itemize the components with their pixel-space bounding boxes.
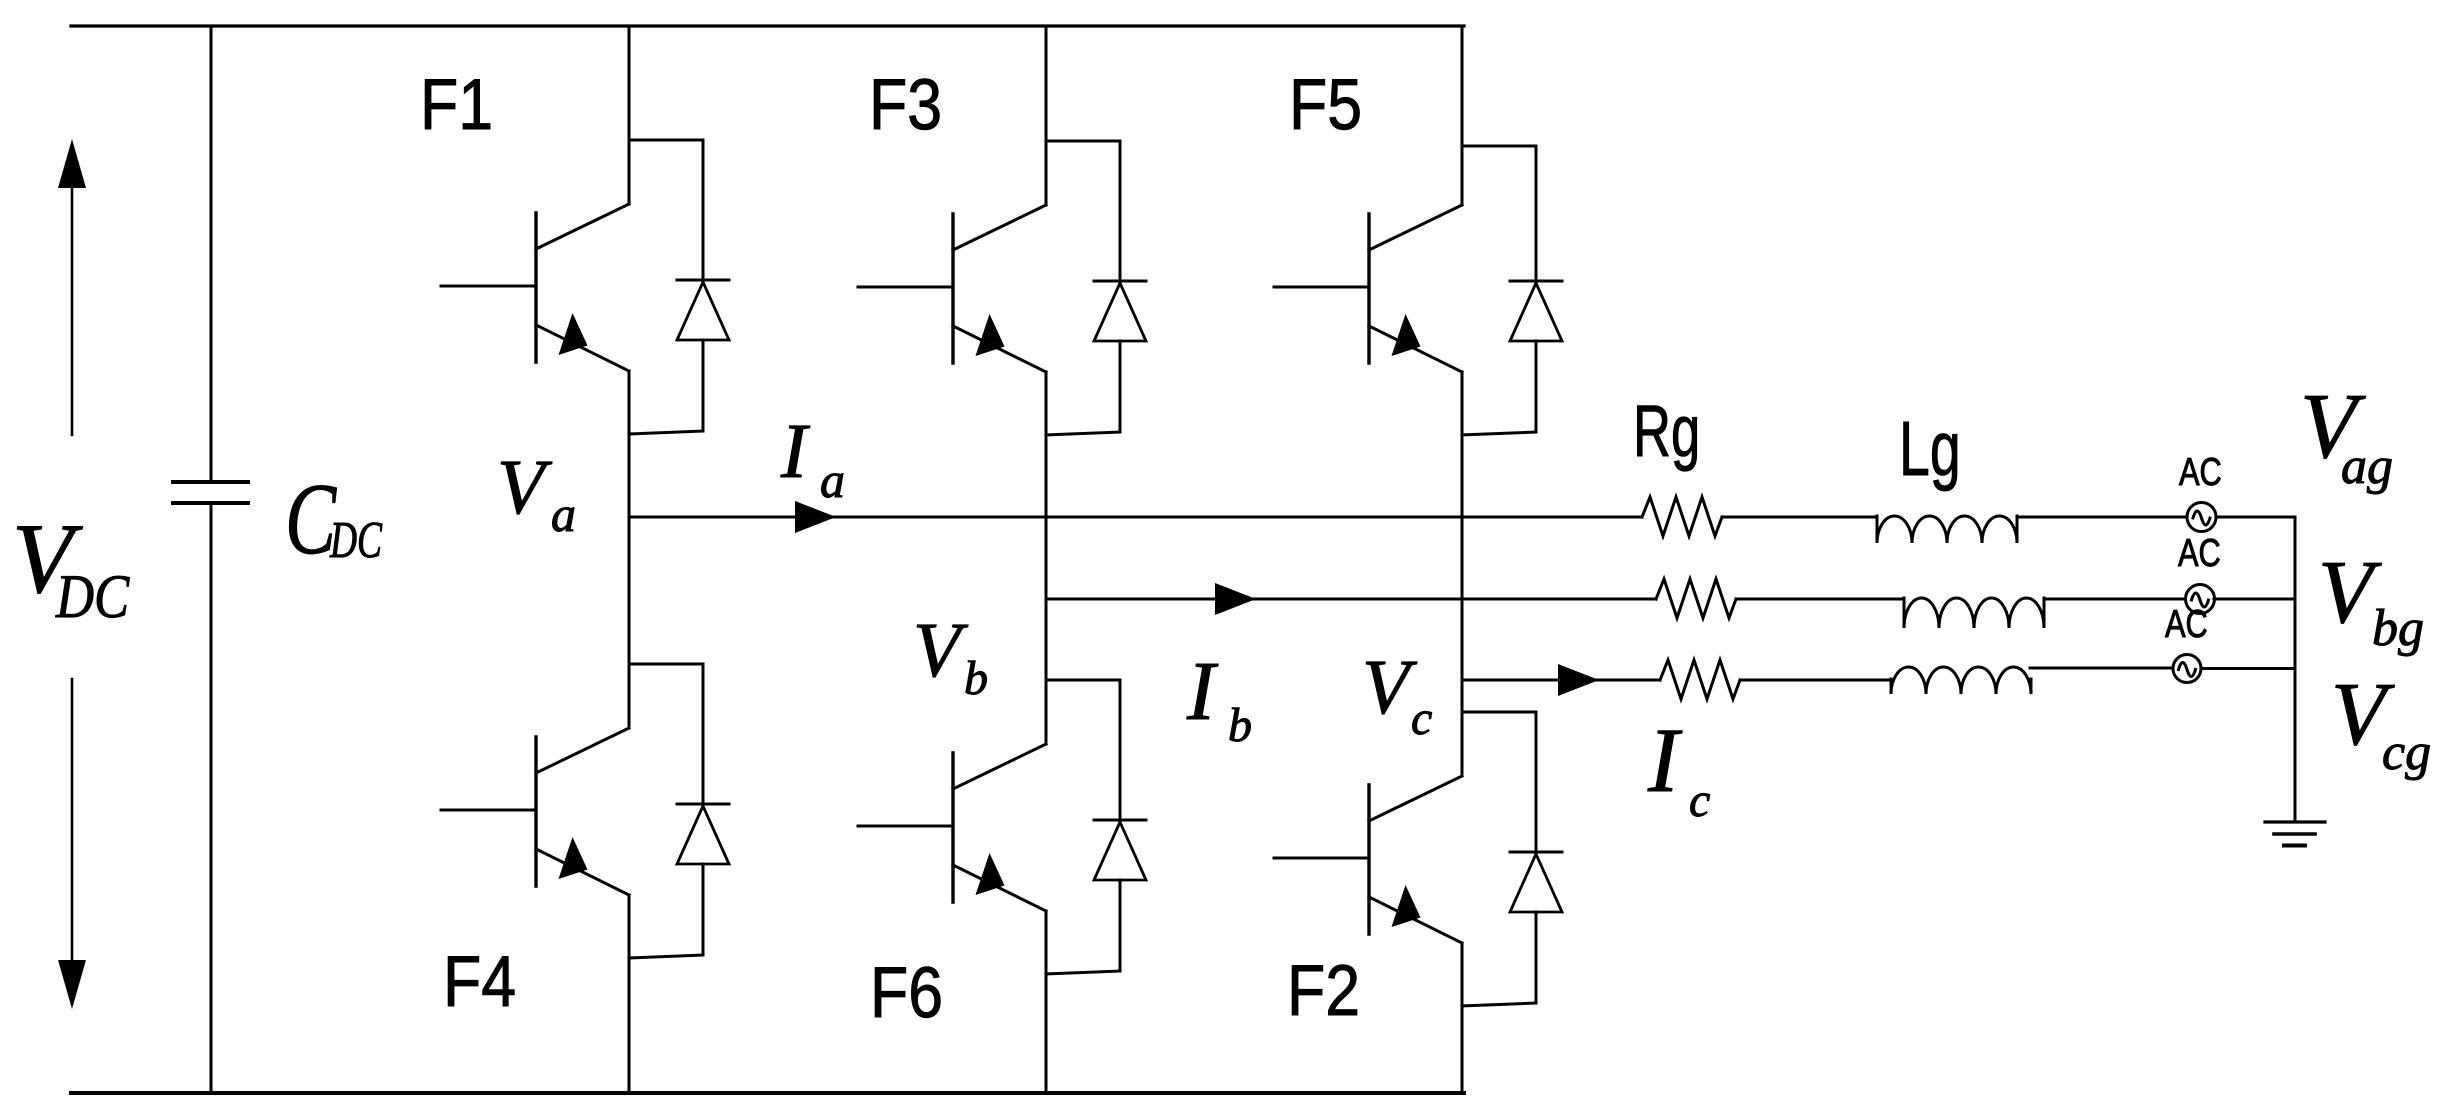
svg-text:F6: F6 xyxy=(870,953,943,1033)
inductor Lg (phase a) xyxy=(1877,516,2017,543)
wire phase a: inverter to resistor xyxy=(629,516,1642,519)
wire phase b: inductor to AC source xyxy=(2044,598,2185,601)
svg-text:I: I xyxy=(1186,645,1219,738)
transistor F4 (IGBT) xyxy=(441,728,629,895)
label F3 xyxy=(869,65,942,145)
label I_a xyxy=(780,407,845,508)
wire phase b: inverter to resistor xyxy=(1046,598,1656,601)
label V_c xyxy=(1362,643,1432,745)
label F1 xyxy=(420,65,493,145)
freewheel diode of F4 xyxy=(629,664,729,958)
V_DC down arrow xyxy=(58,679,86,1009)
svg-text:DC: DC xyxy=(329,512,383,569)
transistor F2 (IGBT) xyxy=(1274,776,1462,943)
wire: leg B upper (F3 collector) xyxy=(1045,26,1048,205)
freewheel diode of F6 xyxy=(1046,680,1146,974)
label AC (phase b) xyxy=(2178,532,2221,575)
wire phase c: inverter to resistor xyxy=(1462,679,1660,682)
capacitor C_DC xyxy=(173,482,248,503)
current arrow Ic xyxy=(1558,664,1599,696)
wire: DC-link rail (bottom) xyxy=(210,505,213,1093)
svg-text:c: c xyxy=(1689,774,1710,827)
svg-text:F1: F1 xyxy=(420,65,493,145)
label AC (phase a) xyxy=(2179,451,2222,494)
svg-text:b: b xyxy=(964,652,988,705)
wire phase b: resistor to inductor xyxy=(1736,598,1904,601)
label F5 xyxy=(1289,65,1362,145)
V_DC up arrow xyxy=(58,139,86,435)
label Rg xyxy=(1633,391,1700,472)
label V_a xyxy=(497,443,576,542)
label I_b xyxy=(1186,645,1252,752)
wire: bottom DC bus xyxy=(71,1091,1464,1095)
svg-text:bg: bg xyxy=(2372,600,2424,657)
inductor Lg (phase c) xyxy=(1891,667,2031,694)
ground xyxy=(2265,822,2325,846)
current arrow Ib xyxy=(1215,583,1256,615)
wire: leg C upper (F5 collector) xyxy=(1461,26,1464,205)
wire phase a: resistor to inductor xyxy=(1722,516,1877,519)
wire phase b: AC source to grid bus xyxy=(2214,598,2295,601)
svg-text:DC: DC xyxy=(55,563,130,631)
label I_c xyxy=(1647,709,1710,827)
transistor F3 (IGBT) xyxy=(858,205,1046,372)
wire phase c: inductor to AC source xyxy=(2030,667,2173,670)
wire: leg C lower (F2 emitter) xyxy=(1461,943,1464,1093)
svg-text:ag: ag xyxy=(2341,438,2393,495)
wire: leg A middle (phase-a node) xyxy=(628,371,631,728)
resistor Rg (phase c) xyxy=(1660,660,1740,699)
svg-text:Lg: Lg xyxy=(1899,406,1961,492)
wire phase c: resistor to inductor xyxy=(1740,679,1891,682)
wire: leg C middle (phase-c node) xyxy=(1461,372,1464,776)
wire: DC-link rail (top) xyxy=(210,26,213,480)
svg-text:b: b xyxy=(1228,699,1252,752)
label V_bg xyxy=(2318,543,2424,657)
svg-text:a: a xyxy=(551,486,576,542)
svg-text:AC: AC xyxy=(2178,532,2221,575)
svg-text:I: I xyxy=(780,407,811,494)
label V_DC xyxy=(12,503,130,631)
freewheel diode of F3 xyxy=(1046,141,1146,435)
wire: grid bus (right vertical) xyxy=(2294,517,2297,822)
freewheel diode of F2 xyxy=(1462,712,1562,1006)
svg-text:F3: F3 xyxy=(869,65,942,145)
wire phase a: AC source to grid bus xyxy=(2216,516,2295,519)
svg-text:C: C xyxy=(285,463,337,576)
transistor F6 (IGBT) xyxy=(858,744,1046,911)
label F4 xyxy=(443,942,516,1022)
transistor F1 (IGBT) xyxy=(441,204,629,371)
label C_DC xyxy=(285,463,383,576)
label F6 xyxy=(870,953,943,1033)
svg-text:Rg: Rg xyxy=(1633,391,1700,472)
svg-text:V: V xyxy=(497,443,553,530)
AC source (phase c) xyxy=(2173,655,2201,683)
wire: leg A upper (F1 collector) xyxy=(628,26,631,204)
label F2 xyxy=(1287,951,1360,1031)
label Lg xyxy=(1899,406,1961,492)
label V_ag xyxy=(2300,375,2393,495)
svg-text:F5: F5 xyxy=(1289,65,1362,145)
freewheel diode of F1 xyxy=(629,140,729,434)
resistor Rg (phase b) xyxy=(1656,579,1736,618)
svg-text:a: a xyxy=(820,452,845,508)
wire: leg B lower (F6 emitter) xyxy=(1045,911,1048,1093)
svg-text:AC: AC xyxy=(2165,603,2208,646)
svg-text:F2: F2 xyxy=(1287,951,1360,1031)
wire phase c: AC source to grid bus xyxy=(2201,667,2295,670)
AC source (phase a) xyxy=(2187,503,2216,532)
resistor Rg (phase a) xyxy=(1642,497,1722,536)
svg-text:V: V xyxy=(913,606,969,693)
wire: leg B middle (phase-b node) xyxy=(1045,372,1048,744)
svg-text:I: I xyxy=(1647,709,1683,811)
svg-text:c: c xyxy=(1411,692,1432,745)
freewheel diode of F5 xyxy=(1462,146,1562,435)
wire: top DC bus xyxy=(71,24,1464,27)
transistor F5 (IGBT) xyxy=(1274,205,1462,372)
label V_b xyxy=(913,606,988,705)
wire: leg A lower (F4 emitter) xyxy=(628,895,631,1093)
svg-text:F4: F4 xyxy=(443,942,516,1022)
svg-text:AC: AC xyxy=(2179,451,2222,494)
label AC (phase c) xyxy=(2165,603,2208,646)
inductor Lg (phase b) xyxy=(1904,598,2044,628)
wire phase a: inductor to AC source xyxy=(2017,516,2187,519)
AC source (phase b) xyxy=(2186,585,2215,614)
current arrow Ia xyxy=(795,501,836,533)
label V_cg xyxy=(2331,665,2431,781)
svg-text:cg: cg xyxy=(2382,724,2431,781)
svg-text:V: V xyxy=(1362,643,1418,730)
